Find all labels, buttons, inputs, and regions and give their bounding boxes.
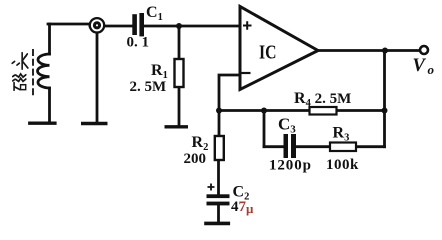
svg-text:200: 200 [184,151,207,167]
wire C2 to ground [217,206,220,222]
ground (R1) [166,125,186,128]
wire C1 to op-amp + input [144,25,239,28]
wire output node down right side [383,51,386,147]
label magnetic head "ci tou" (rotated, hand-drawn glyph strokes) [12,53,28,90]
svg-text:IC: IC [259,42,277,64]
ground (C2) [206,222,228,226]
node branch C3R3 [261,108,267,114]
wire R3 to right vertical [356,145,385,148]
wire R2 to C2 [217,160,220,194]
connector J1 (jack) [90,18,104,32]
svg-text:1200p: 1200p [269,158,312,174]
wire node to R1 [178,26,181,59]
capacitor C2 polarity + [208,184,215,191]
svg-text:2. 5M: 2. 5M [130,79,167,95]
wire connector stem [96,33,99,122]
wire op-amp inverting input [219,75,240,110]
svg-text:47μ: 47μ [231,199,254,216]
wire feedback R4 horizontal [219,109,385,112]
ground (connector) [83,122,106,125]
wire left vertical down to coil [48,24,51,54]
node R4 right [382,108,388,114]
wire top from left corner to connector [48,23,90,26]
capacitor C1 plates [132,13,144,36]
wire node to R2 [218,111,221,137]
capacitor C3 plates [284,134,297,158]
op-amp + sign [243,21,252,29]
resistor R2 body [215,136,224,160]
svg-text:0. 1: 0. 1 [127,35,150,51]
char "tou" (top after rotation) [12,53,28,69]
resistor R4 body [310,107,337,115]
ground (coil) [30,121,55,124]
op-amp - sign [242,72,251,74]
dashed boundary line of head [32,49,34,97]
output terminal Vo [420,46,428,54]
op-amp U1 triangle [240,7,318,90]
node inverting/R4 [216,108,222,114]
capacitor C2 plates [207,194,230,205]
resistor R3 body [330,143,356,152]
wire R1 to ground [178,87,181,125]
wire branch C3R3 vertical [263,111,266,147]
wire branch to C3 [264,145,284,148]
char "ci" (bottom after rotation) [13,74,26,90]
svg-text:100k: 100k [326,157,359,173]
wire connector to C1 [90,25,132,28]
node output [382,48,388,54]
resistor R1 body [175,59,184,87]
svg-text:R4 2. 5M: R4 2. 5M [294,90,351,109]
inductor L (magnetic head coil) [38,54,50,88]
wire op-amp output [318,49,420,52]
wire coil to ground [48,88,51,122]
node after C1 [176,23,182,29]
wire C3 to R3 [296,145,330,148]
